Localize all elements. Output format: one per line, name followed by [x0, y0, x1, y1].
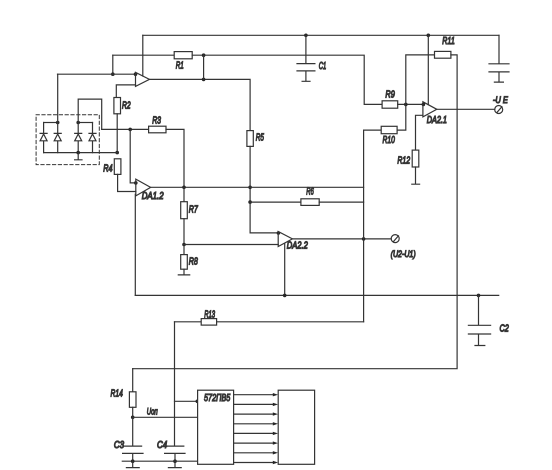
node top rail / C1 [304, 34, 308, 38]
svg-text:DA2.1: DA2.1 [427, 115, 447, 126]
svg-text:C3: C3 [114, 440, 125, 451]
ground C3 [126, 461, 139, 467]
bus line 1 [234, 393, 278, 396]
wire DA1.2 output line [151, 186, 364, 188]
node output tap [362, 237, 366, 241]
bus line 3 [234, 412, 278, 415]
wire R3 node rail [102, 128, 149, 130]
wire R5 bottom to DA2.2 input [250, 146, 278, 233]
svg-text:R11: R11 [442, 36, 455, 47]
node C3 ground [131, 459, 135, 463]
svg-text:(U2-U1): (U2-U1) [391, 249, 416, 260]
wire top supply rail [143, 34, 499, 36]
wire DA2.2 supply drop [284, 244, 286, 296]
wire DA1.2 inverting drop [130, 129, 136, 183]
wire R10 right up to node [397, 104, 406, 130]
node DA2.1 input pin [422, 103, 426, 107]
ground C4 [168, 461, 181, 467]
svg-text:R9: R9 [385, 90, 395, 101]
wire left pair riser [57, 74, 59, 122]
bus line 4 [234, 422, 278, 425]
node R3 / DA1.2 input [128, 128, 132, 132]
wire R3 right to output node [166, 129, 184, 187]
wire chip ref pin [175, 400, 198, 402]
bus line 5 [234, 432, 278, 435]
node DA1.2 input pin [134, 181, 138, 185]
resistor R6 [250, 187, 319, 206]
node R9 R10 R11 junction [404, 103, 408, 107]
bus line 7 [234, 451, 278, 454]
node R2 / photodiode common [115, 151, 119, 155]
svg-text:R4: R4 [103, 163, 113, 174]
wire photodiode bottom rail [44, 152, 118, 154]
wire DA2.1 supply drop [427, 35, 429, 104]
wire ground rail bottom [122, 460, 197, 462]
resistor R4 [103, 159, 121, 175]
node top rail / DA2.1 supply [427, 34, 431, 38]
bus line 6 [234, 441, 278, 444]
svg-text:C1: C1 [319, 61, 327, 72]
node DA1.1 input left [111, 72, 115, 76]
wire DA1.1 inverting input [58, 73, 136, 75]
node R5 DA1.2 output [248, 186, 252, 190]
wire DA1.1 supply drop [142, 35, 144, 76]
wire R14 bottom [132, 407, 134, 417]
svg-text:DA1.2: DA1.2 [142, 191, 164, 202]
resistor R2 [114, 98, 131, 114]
svg-text:R2: R2 [122, 101, 131, 112]
wire R7R8 to DA2.2 lower input [184, 244, 278, 246]
capacitor top right [489, 35, 509, 82]
node DA1.1 input pin [134, 72, 138, 76]
diode VD3 [75, 123, 82, 153]
wire DA2.1 output [437, 108, 495, 110]
bus line 2 [234, 403, 278, 406]
svg-text:R7: R7 [189, 205, 198, 216]
svg-text:C4: C4 [157, 440, 168, 451]
resistor R7 [181, 187, 198, 218]
svg-text:R14: R14 [111, 388, 124, 399]
capacitor C4 [157, 440, 185, 461]
wire R2 bottom drop [116, 114, 118, 153]
node left pair [56, 121, 60, 125]
wire R13 left vertical down [174, 322, 176, 446]
svg-text:R1: R1 [176, 61, 184, 72]
wire vertical 112.8 [112, 55, 114, 74]
wire R13 right [217, 321, 364, 323]
wire DA2.2 output [292, 238, 391, 240]
ground R8 [178, 269, 189, 275]
svg-text:Uоп: Uоп [147, 407, 158, 417]
svg-text:R6: R6 [306, 187, 314, 198]
op-amp DA1.1 output wire [149, 79, 250, 130]
svg-text:R5: R5 [256, 133, 264, 144]
wire long vertical R10 R6 output R13 [363, 130, 365, 322]
wire R1 feedback vertical [203, 55, 205, 79]
diode VD4 [89, 123, 96, 153]
wire R11 right long feedback down [133, 55, 457, 369]
op-amp DA2.2 [278, 232, 308, 252]
ground photodiode box [75, 153, 82, 160]
resistor R14 [111, 369, 137, 408]
wire right pair Z-link to R3 node [78, 99, 102, 129]
resistor R13 [175, 309, 217, 325]
svg-text:R3: R3 [152, 115, 161, 126]
svg-text:DA2.2: DA2.2 [287, 240, 308, 251]
svg-text:-U Е: -U Е [493, 95, 509, 106]
resistor R3 [149, 115, 166, 133]
op-amp DA1.2 [136, 179, 164, 202]
terminal -U E [493, 95, 509, 114]
ground R12 [412, 167, 420, 184]
node R3R7 tap [182, 186, 186, 190]
wire Uon line to chip [133, 407, 198, 418]
wire R1 right to corner [192, 55, 382, 104]
op-amp DA2.1 [423, 102, 447, 126]
photodiode box dashed [36, 115, 99, 165]
node bottom rail ground tap [76, 151, 80, 155]
wire R9 right to DA2.1 [398, 103, 423, 105]
op-amp DA1.1 [136, 72, 150, 86]
node Uon [131, 416, 135, 420]
diode VD2 [54, 123, 61, 153]
node R6 tap [248, 200, 252, 204]
diode VD1 [40, 123, 47, 153]
wire R7 bottom [183, 219, 185, 245]
bus line 8 [234, 461, 278, 464]
wire left pair top bar [44, 122, 58, 124]
wire R4 to DA1.2 noninverting input [118, 174, 136, 191]
node C2 on rail [477, 294, 481, 298]
wire DA1.2 supply drop [134, 194, 136, 295]
wire inverting rail y55 left [113, 54, 174, 56]
wire DA1.1 noninverting input to R2 [116, 85, 135, 98]
terminal U2-U1 [391, 235, 416, 260]
svg-text:R12: R12 [397, 155, 410, 166]
resistor R1 [174, 52, 192, 72]
node chip ref pin [196, 400, 200, 404]
svg-text:R8: R8 [189, 256, 198, 267]
wire R11 left vertical [406, 55, 435, 105]
node DA2.2 supply on rail [283, 294, 287, 298]
data bus register box [278, 390, 314, 464]
resistor R5 [247, 131, 264, 147]
svg-text:R10: R10 [383, 135, 396, 146]
node C4 ground [173, 459, 177, 463]
resistor R9 [382, 90, 398, 109]
capacitor C2 [468, 295, 509, 345]
node right pair [76, 121, 80, 125]
node output R1 feedback [202, 78, 206, 82]
wire R6 right [319, 201, 363, 203]
resistor R10 [364, 126, 398, 146]
IC 572PV5 [198, 390, 234, 464]
resistor R11 [435, 36, 455, 58]
svg-text:572ПВ5: 572ПВ5 [204, 392, 230, 404]
capacitor C3 [114, 417, 143, 461]
resistor R12 [397, 150, 418, 167]
node DA2.2 input pin [277, 231, 281, 235]
svg-text:R13: R13 [204, 309, 215, 320]
node R7 R8 junction [182, 243, 186, 247]
capacitor C1 [297, 35, 326, 81]
wire DA2.1 noninverting to R12 [416, 115, 423, 150]
svg-text:C2: C2 [500, 323, 510, 334]
wire right pair top bar [78, 122, 92, 124]
wire negative supply rail [135, 294, 498, 296]
node R1 right [202, 53, 206, 57]
resistor R8 [181, 245, 198, 270]
